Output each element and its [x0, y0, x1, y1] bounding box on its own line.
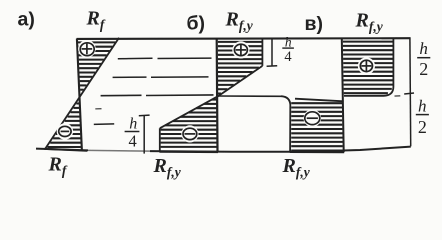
diagram b bottom trapezoid base edge — [159, 151, 218, 154]
svg-text:б): б) — [187, 12, 206, 34]
diagram a diagonal stress line — [45, 38, 119, 149]
dimension line h (right vertical) — [409, 38, 412, 146]
svg-text:а): а) — [18, 9, 35, 31]
dimension h/4 left (bottom quarter) — [139, 115, 150, 154]
hatching a top (positive area) — [78, 42, 115, 89]
hatching a bottom (negative area) — [47, 104, 81, 148]
label Rf,y bottom of diagram v — [282, 155, 311, 180]
minus sign b — [181, 125, 198, 142]
lamination line upper 2 (between a and b) — [113, 76, 209, 79]
label h/4 left — [125, 115, 140, 150]
label b) — [187, 12, 206, 34]
svg-text:4: 4 — [128, 132, 136, 151]
hatching b top (positive area) — [218, 42, 262, 94]
beam top edge line — [77, 37, 411, 40]
label Rf,y top of diagram b — [225, 9, 254, 33]
svg-text:h: h — [419, 39, 428, 58]
svg-text:h: h — [285, 34, 292, 49]
diagram v bottom rectangle left edge with rounded corner — [281, 96, 290, 152]
hatching b bottom (negative area) — [161, 100, 217, 147]
mid-height zero line right of v — [395, 95, 401, 97]
label Rf,y bottom of diagram b — [153, 155, 182, 180]
diagram v zero axis (vertical) — [342, 39, 344, 153]
svg-text:h: h — [129, 115, 137, 132]
diagram v top rectangle right edge with rounded corner — [344, 38, 393, 96]
label h/2 upper — [417, 39, 430, 79]
diagram v bottom rectangle top edge — [295, 99, 344, 102]
diagram b top rectangle right edge — [261, 39, 263, 66]
diagram a bottom triangle base edge — [44, 149, 87, 151]
lamination dash lower 1 (between a and b) — [95, 108, 101, 110]
minus sign a — [57, 123, 73, 139]
diagram b bottom trapezoid left edge — [159, 128, 161, 152]
label Rf,y top of diagram v — [355, 10, 384, 34]
svg-text:2: 2 — [418, 117, 427, 137]
plus sign b — [232, 41, 249, 58]
dimension tick mid-height right — [404, 93, 414, 94]
lamination dash lower 2 (between a and b) — [94, 123, 114, 126]
label Rf top of diagram a — [86, 8, 106, 32]
plus sign a — [78, 40, 96, 58]
lamination line upper 1 (between a and b) — [118, 57, 212, 60]
svg-text:h: h — [418, 96, 427, 115]
diagram v bottom rectangle base edge — [290, 151, 344, 154]
diagram b diagonal stress line — [160, 66, 263, 128]
label h/2 lower — [416, 96, 429, 137]
plus sign v — [358, 57, 375, 74]
hatching v bottom (negative area) — [291, 103, 343, 150]
minus sign v — [304, 109, 322, 127]
diagram b zero axis (vertical) — [216, 39, 219, 153]
svg-text:в): в) — [305, 13, 323, 35]
svg-text:2: 2 — [419, 59, 428, 79]
dimension h/4 right (top quarter) — [267, 39, 278, 67]
label a) — [18, 9, 35, 31]
mid-height zero line between a and b — [101, 94, 214, 97]
label h/4 right — [282, 34, 294, 65]
hatching v top (positive area) — [343, 42, 393, 94]
diagram a zero axis (vertical) — [77, 39, 82, 151]
label Rf bottom of diagram a — [48, 154, 68, 179]
mid-height zero line between b and v — [218, 95, 282, 97]
beam bottom edge line — [36, 147, 411, 152]
svg-text:4: 4 — [284, 49, 292, 65]
label v) — [305, 13, 323, 35]
